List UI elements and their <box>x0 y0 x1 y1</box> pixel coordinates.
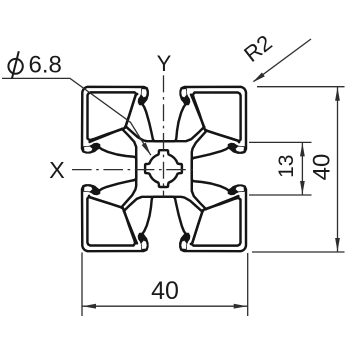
svg-text:13: 13 <box>275 155 298 178</box>
svg-text:6.8: 6.8 <box>29 51 62 78</box>
svg-text:40: 40 <box>151 277 179 305</box>
svg-text:40: 40 <box>309 154 336 181</box>
svg-text:Y: Y <box>157 51 172 76</box>
svg-text:X: X <box>49 157 65 183</box>
